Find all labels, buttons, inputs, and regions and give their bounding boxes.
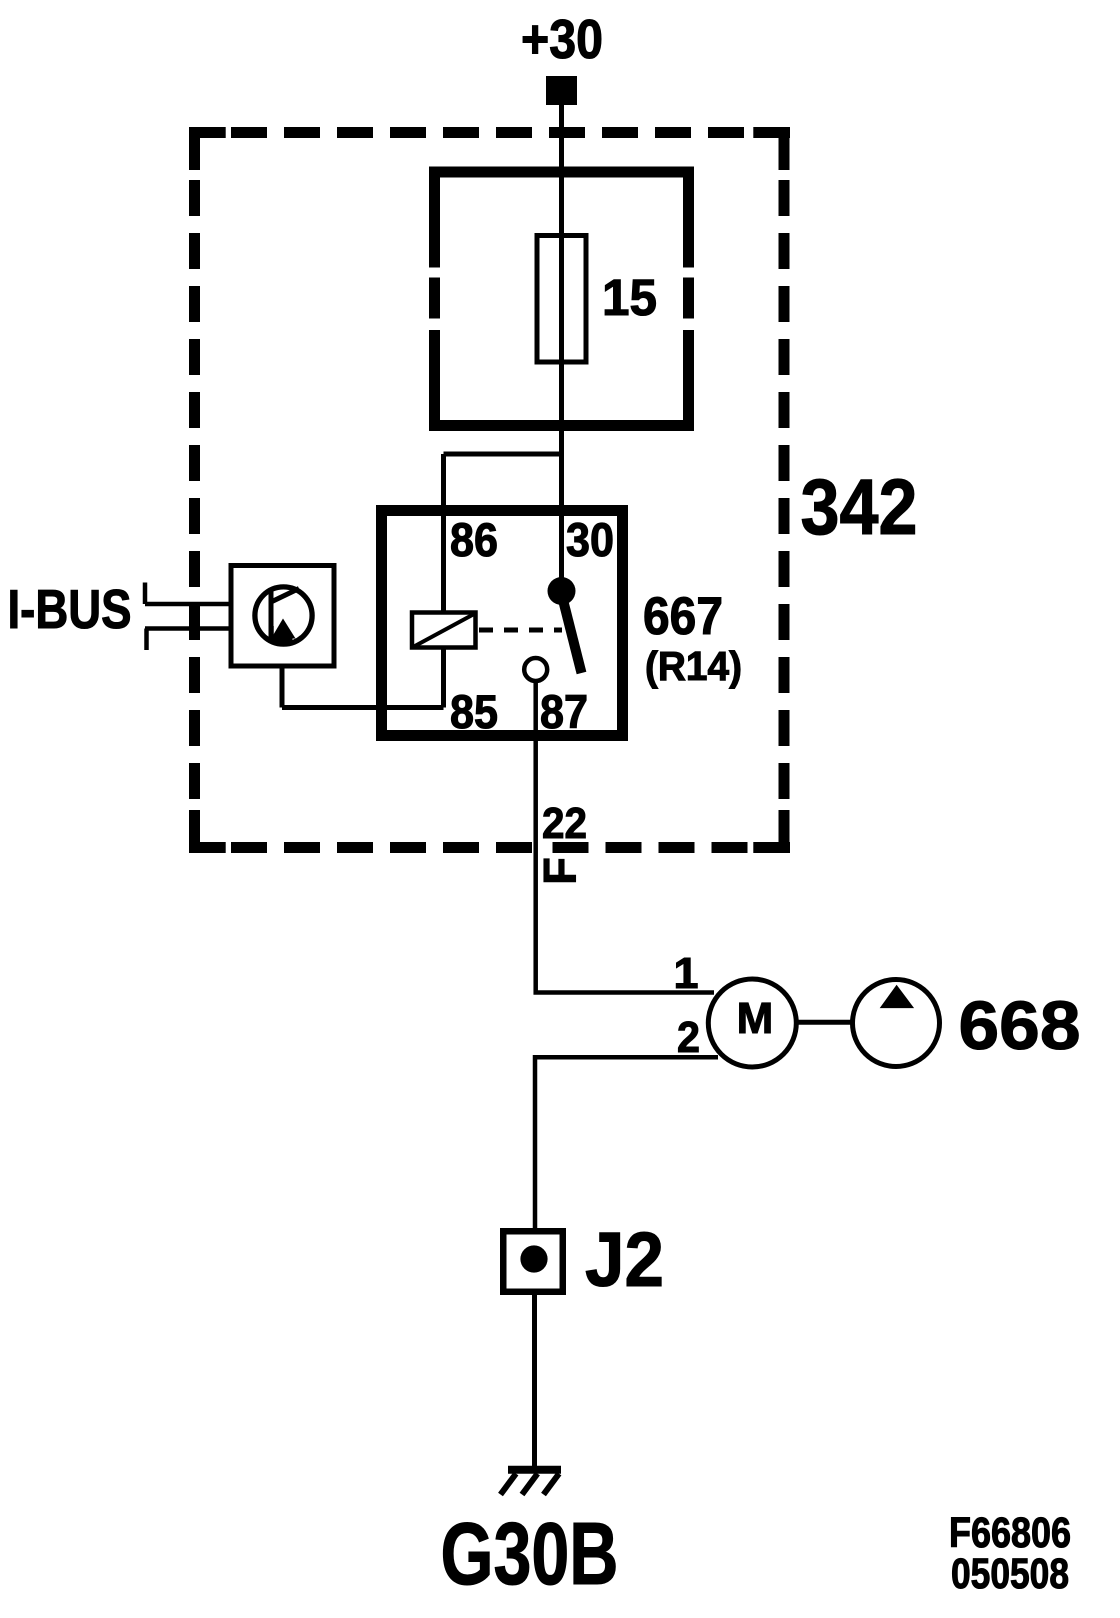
relay contact circle pin 87 (524, 658, 547, 681)
link motor to pump (796, 1020, 852, 1025)
fuse holder box left edge segment 2 (429, 278, 440, 319)
wire relay pin 87 down to motor pin 1 (536, 681, 714, 993)
connector J2 box (503, 1231, 563, 1292)
svg-text:2: 2 (677, 1013, 700, 1062)
I-BUS upper line end tick (143, 583, 148, 605)
relay actuating dashed link (479, 628, 562, 633)
svg-text:87: 87 (540, 685, 588, 738)
fuse holder box right edge segment 3 (683, 330, 694, 431)
ground hatch 2 (522, 1474, 538, 1495)
wire gateway to relay pin 85 horizontal (282, 705, 444, 710)
ground bar (508, 1466, 561, 1474)
relay switch arm (562, 594, 582, 673)
dashed enclosure box 342 top-left corner (195, 133, 226, 171)
svg-text:30: 30 (566, 513, 614, 566)
svg-text:22: 22 (542, 799, 587, 848)
relay contact pivot dot pin 30 (548, 577, 576, 605)
relay coil (412, 613, 476, 648)
svg-text:668: 668 (959, 987, 1081, 1064)
wire down to relay pin 86 (441, 454, 446, 613)
relay U 667 box (382, 511, 623, 736)
fuse holder box top edge (429, 167, 694, 178)
wire branch from pin30 feed to relay pin 86 (444, 452, 562, 457)
svg-text:J2: J2 (585, 1217, 664, 1303)
pump circle (853, 980, 940, 1067)
svg-text:85: 85 (450, 685, 498, 738)
dashed enclosure box 342 top edge (189, 127, 790, 138)
dashed enclosure box 342 top-right corner (753, 133, 784, 171)
dashed enclosure box 342 bottom edge right part (553, 842, 791, 853)
svg-text:86: 86 (450, 513, 498, 566)
bus gateway chord line (269, 588, 274, 641)
svg-text:667: 667 (643, 587, 723, 646)
svg-text:G30B: G30B (441, 1504, 619, 1603)
svg-text:F: F (535, 857, 586, 885)
fuse holder box left edge segment 3 (429, 330, 440, 431)
svg-text:M: M (737, 994, 774, 1043)
ground hatch 3 (544, 1474, 560, 1495)
wire motor pin 2 down to J2 (535, 1057, 718, 1231)
I-BUS lower line end tick (144, 629, 149, 651)
bus gateway module box (231, 566, 334, 667)
wire coil bottom to pin 85 (441, 648, 446, 708)
I-BUS upper bus line (145, 602, 230, 607)
dashed enclosure box 342 left edge (189, 127, 200, 853)
dashed enclosure box 342 bottom-right corner (753, 810, 784, 848)
fuse holder box right edge segment 1 (683, 167, 694, 268)
svg-text:15: 15 (602, 269, 657, 326)
svg-text:342: 342 (801, 462, 918, 551)
pump triangle (880, 985, 914, 1008)
svg-text:+30: +30 (521, 8, 603, 70)
bus gateway diagonal line (271, 589, 299, 603)
ground hatch 1 (501, 1474, 517, 1495)
relay coil diagonal (414, 614, 475, 647)
fuse holder box right edge segment 2 (683, 278, 694, 319)
connector J2 dot (520, 1245, 547, 1272)
dashed enclosure box 342 bottom-left corner (195, 810, 226, 848)
bus gateway filled triangle (272, 619, 296, 639)
fuse holder box bottom edge (429, 420, 694, 431)
bus gateway L bracket (272, 626, 293, 640)
bus gateway circle (255, 587, 312, 644)
dashed enclosure box 342 bottom edge left part (189, 842, 532, 853)
wire gateway to relay pin 85 vertical (280, 666, 285, 708)
node +30 terminal square (546, 76, 577, 105)
fuse holder box left edge segment 1 (429, 167, 440, 268)
svg-text:1: 1 (674, 949, 699, 998)
I-BUS lower bus line (145, 626, 230, 631)
fuse element 15 body (537, 236, 586, 363)
motor M668 circle (708, 979, 796, 1067)
wire +30 feed down to relay pin 30 (559, 105, 564, 591)
dashed enclosure box 342 right edge (779, 127, 790, 853)
svg-text:(R14): (R14) (645, 643, 742, 689)
wire J2 to ground (532, 1292, 537, 1470)
svg-text:050508: 050508 (951, 1550, 1069, 1598)
svg-text:I-BUS: I-BUS (8, 578, 132, 640)
